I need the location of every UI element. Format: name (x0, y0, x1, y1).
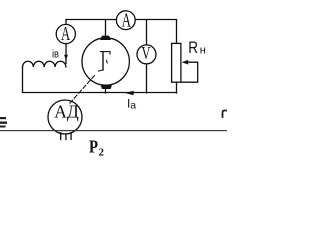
voltmeter V riser wire (146, 20, 148, 45)
current arrow Ia (armature current) (125, 91, 134, 95)
three-phase terminal lines (61, 133, 71, 140)
wire voltmeter to bottom bus (146, 64, 148, 93)
ammeter A1 (field circuit) (56, 24, 75, 43)
resistor Rn rheostat body (172, 43, 181, 82)
svg-text:А: А (61, 24, 70, 45)
shaft coupling dashed line (70, 76, 95, 104)
svg-text:АД: АД (54, 101, 79, 121)
wire A1 to field winding (65, 44, 67, 64)
wire generator bottom brush drop (105, 89, 107, 94)
motor AD circle (48, 100, 82, 134)
wire rheostat wiper tail and loop (181, 62, 198, 82)
current arrow iv (field current) (64, 55, 68, 61)
svg-text:н: н (200, 45, 206, 57)
margin artifact marks left (0, 117, 6, 119)
ammeter A2 (armature circuit) (116, 11, 135, 30)
wire top bus right segment with corner to rheostat (135, 20, 176, 44)
svg-text:2: 2 (99, 146, 105, 158)
brush bottom of generator (101, 85, 112, 89)
rheostat wiper arrowhead (182, 60, 189, 65)
svg-text:а: а (130, 100, 136, 112)
wire inductor left drop (22, 67, 24, 93)
wire bottom bus (23, 92, 177, 94)
wire ammeter A1 riser (65, 20, 67, 25)
svg-text:V: V (142, 43, 151, 63)
wire rheostat bottom stub (176, 82, 178, 93)
svg-text:iв: iв (52, 48, 59, 60)
label G of generator (98, 52, 110, 72)
wire top bus left segment (66, 19, 116, 21)
svg-text:Р: Р (89, 137, 98, 157)
margin artifact mark right (223, 111, 228, 118)
voltmeter V (137, 45, 156, 64)
node T junction generator top (105, 20, 107, 37)
svg-text:R: R (188, 38, 198, 57)
svg-text:А: А (122, 11, 131, 32)
page rule line artifact (0, 130, 227, 131)
generator G armature circle (82, 38, 129, 85)
inductor L field winding (22, 61, 65, 67)
brush top of generator (100, 36, 111, 40)
